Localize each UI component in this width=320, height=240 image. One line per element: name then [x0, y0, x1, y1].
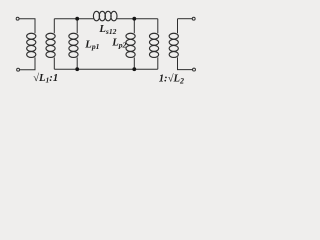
wire TL to coil A	[19, 19, 35, 34]
wire top bus left	[54, 18, 93, 20]
inductor Lp2	[133, 19, 135, 34]
terminal BR	[193, 68, 196, 71]
node dot top Lp2	[132, 17, 136, 21]
terminal TL	[16, 17, 19, 20]
node dot bottom Lp2	[132, 67, 136, 71]
wire top bus right	[117, 18, 158, 20]
wire coil D to BR	[178, 57, 193, 69]
wire bottom bus	[54, 68, 158, 70]
transformer T1 secondary coil B	[53, 19, 55, 34]
terminal BL	[17, 68, 20, 71]
wire coil A to BL	[20, 57, 35, 69]
transformer T1 primary coil A	[27, 33, 36, 57]
inductor Ls12	[93, 11, 117, 21]
transformer T2 primary coil C	[157, 19, 159, 34]
inductor Lp1	[76, 19, 78, 34]
node dot bottom Lp1	[75, 67, 79, 71]
wire coil D to TR	[178, 18, 193, 20]
node dot top Lp1	[75, 17, 79, 21]
transformer T2 secondary coil D	[177, 19, 179, 34]
terminal TR	[192, 17, 195, 20]
